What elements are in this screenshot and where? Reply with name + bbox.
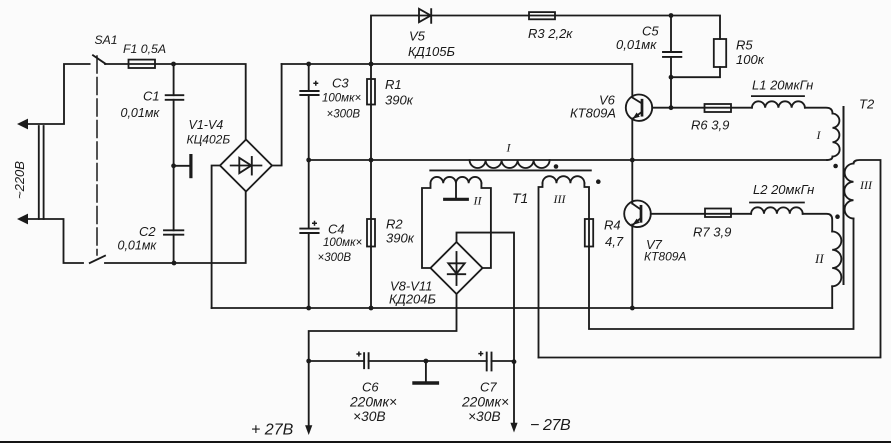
svg-text:390к: 390к bbox=[385, 93, 414, 108]
svg-text:КД204Б: КД204Б bbox=[389, 292, 437, 307]
svg-text:C7: C7 bbox=[480, 380, 497, 395]
svg-text:390к: 390к bbox=[386, 231, 415, 246]
svg-text:~220В: ~220В bbox=[12, 161, 27, 199]
svg-text:0,01мк: 0,01мк bbox=[121, 106, 161, 120]
svg-text:R6 3,9: R6 3,9 bbox=[691, 118, 729, 133]
svg-text:C3: C3 bbox=[332, 76, 349, 91]
svg-text:×300В: ×300В bbox=[318, 252, 352, 264]
svg-text:R5: R5 bbox=[736, 38, 753, 53]
svg-text:220мк×: 220мк× bbox=[349, 395, 397, 410]
svg-text:T2: T2 bbox=[859, 97, 875, 112]
svg-text:×30В: ×30В bbox=[353, 409, 386, 424]
svg-text:F1 0,5A: F1 0,5A bbox=[123, 42, 166, 56]
svg-text:C1: C1 bbox=[143, 89, 160, 104]
svg-text:×30В: ×30В bbox=[468, 409, 501, 424]
svg-text:R3 2,2к: R3 2,2к bbox=[528, 26, 573, 41]
svg-text:R1: R1 bbox=[385, 77, 402, 92]
svg-text:V1-V4: V1-V4 bbox=[189, 118, 224, 132]
svg-text:100мк×: 100мк× bbox=[323, 237, 363, 249]
svg-text:II: II bbox=[814, 251, 824, 266]
svg-text:C4: C4 bbox=[328, 222, 345, 237]
svg-text:КТ809А: КТ809А bbox=[644, 250, 686, 264]
svg-text:КД105Б: КД105Б bbox=[408, 44, 456, 59]
svg-text:R4: R4 bbox=[604, 218, 621, 233]
svg-text:100мк×: 100мк× bbox=[322, 93, 362, 105]
svg-text:0,01мк: 0,01мк bbox=[118, 239, 158, 253]
svg-text:+ 27В: + 27В bbox=[251, 422, 294, 439]
svg-text:C2: C2 bbox=[139, 224, 156, 239]
svg-text:220мк×: 220мк× bbox=[461, 395, 509, 410]
svg-text:C6: C6 bbox=[362, 380, 379, 395]
svg-text:III: III bbox=[553, 192, 567, 206]
svg-text:T1: T1 bbox=[512, 190, 528, 206]
svg-text:L1 20мкГн: L1 20мкГн bbox=[752, 78, 813, 93]
svg-text:SA1: SA1 bbox=[95, 33, 118, 47]
svg-text:R7 3,9: R7 3,9 bbox=[693, 225, 731, 240]
svg-text:L2 20мкГн: L2 20мкГн bbox=[753, 182, 814, 197]
svg-text:100к: 100к bbox=[736, 52, 765, 67]
svg-text:I: I bbox=[506, 141, 512, 155]
svg-text:0,01мк: 0,01мк bbox=[616, 37, 657, 52]
svg-text:4,7: 4,7 bbox=[605, 234, 624, 249]
svg-text:II: II bbox=[473, 194, 483, 208]
svg-text:III: III bbox=[859, 178, 873, 192]
svg-text:КТ809А: КТ809А bbox=[570, 106, 616, 121]
svg-text:КЦ402Б: КЦ402Б bbox=[187, 133, 231, 147]
svg-text:R2: R2 bbox=[386, 217, 403, 232]
svg-text:×300В: ×300В bbox=[327, 109, 361, 121]
svg-text:− 27В: − 27В bbox=[530, 417, 571, 434]
svg-text:V5: V5 bbox=[409, 29, 426, 44]
svg-text:I: I bbox=[816, 128, 822, 142]
